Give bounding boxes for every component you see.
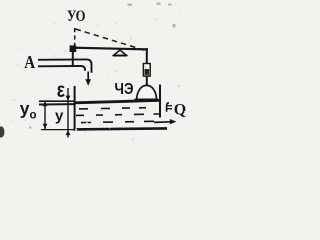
lever arm [70,48,148,50]
wire: dashed vertical link below УО [74,28,76,46]
svg-text:ε: ε [57,79,65,102]
outlet pipe double line [167,105,172,107]
scan speckles [29,3,176,129]
wire: dashed diagonal (tilted lever position) [76,29,148,51]
inlet pipe top wall [38,59,92,72]
float base plate [135,99,159,102]
paper noise [6,9,186,140]
outflow arrow [154,121,171,124]
tank left wall [74,86,76,130]
svg-text:у: у [55,107,64,124]
water surface (thick) [75,100,160,102]
outlet pipe end tick [167,103,169,112]
damper / connector block on float rod [143,64,150,77]
water dashes row 1 [79,108,146,109]
pivot fulcrum triangle [114,50,127,55]
inlet pipe bottom wall [38,66,85,71]
tank bottom (thick) [74,128,168,129]
scan blob left edge [0,126,4,137]
wire: rod from damper to float [146,76,148,85]
svg-text:УО: УО [67,8,86,25]
water dashes row 2 [76,114,159,115]
svg-text:Q: Q [174,102,186,119]
inflow arrow into tank [87,72,89,81]
svg-text:А: А [24,52,35,72]
tank right wall [159,85,161,118]
dimension line ε / у (vertical with arrows) [67,88,69,138]
wire: bottom reference extension (thin) [41,129,74,131]
water dashes row 3 [81,121,154,122]
valve stem [72,49,74,67]
dimension line у0 [44,101,46,129]
svg-text:ЧЭ: ЧЭ [115,81,134,98]
nominal level reference line [39,100,74,102]
float dome ЧЭ [137,85,157,99]
node: lever-valve junction dot [70,45,77,52]
actual level reference line [39,103,74,105]
wire: lever right end down to damper [146,48,148,64]
